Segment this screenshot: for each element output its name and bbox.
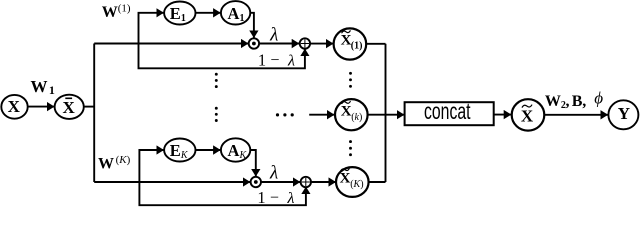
svg-text:(k): (k) xyxy=(351,112,362,123)
svg-text:,: , xyxy=(582,93,586,110)
svg-text:E: E xyxy=(170,141,181,160)
svg-text:Y: Y xyxy=(618,104,630,123)
svg-text:concat: concat xyxy=(424,98,471,124)
svg-text:(1): (1) xyxy=(351,41,363,52)
svg-text:(K): (K) xyxy=(116,154,131,166)
svg-text:A: A xyxy=(228,141,240,160)
svg-text:(1): (1) xyxy=(118,3,131,15)
svg-text:W: W xyxy=(545,93,561,110)
svg-text:ϕ: ϕ xyxy=(594,89,603,108)
svg-text:1: 1 xyxy=(49,83,55,97)
svg-text:X: X xyxy=(341,103,352,119)
svg-text:A: A xyxy=(228,4,240,23)
svg-text:X: X xyxy=(63,98,76,117)
svg-text:B: B xyxy=(572,93,583,110)
svg-text:−: − xyxy=(270,190,279,207)
svg-text:−: − xyxy=(270,52,279,69)
svg-text:W: W xyxy=(31,77,48,96)
svg-text:W: W xyxy=(102,4,118,21)
svg-text:,: , xyxy=(566,93,570,110)
svg-text:1: 1 xyxy=(181,13,186,24)
svg-text:λ: λ xyxy=(287,190,295,207)
svg-text:λ: λ xyxy=(269,163,278,184)
svg-text:1: 1 xyxy=(257,188,265,207)
svg-text:K: K xyxy=(239,150,248,161)
svg-text:(K): (K) xyxy=(350,179,363,190)
svg-text:K: K xyxy=(180,150,189,161)
svg-text:W: W xyxy=(98,156,114,173)
svg-text:E: E xyxy=(170,4,181,23)
svg-text:λ: λ xyxy=(287,52,295,69)
svg-text:1: 1 xyxy=(258,50,266,69)
svg-text:λ: λ xyxy=(269,24,278,45)
svg-text:X: X xyxy=(340,171,351,187)
svg-text:X: X xyxy=(8,97,21,116)
svg-text:X: X xyxy=(521,107,534,126)
svg-text:1: 1 xyxy=(240,13,245,24)
